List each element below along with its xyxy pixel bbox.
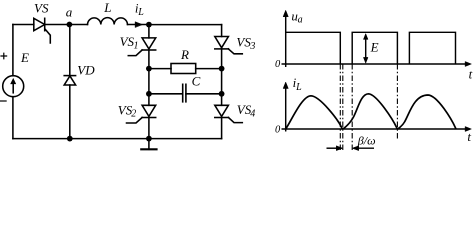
svg-text:E: E xyxy=(370,39,379,54)
svg-text:1: 1 xyxy=(134,40,139,51)
svg-text:t: t xyxy=(469,66,473,81)
svg-text:VS: VS xyxy=(34,0,49,15)
svg-text:VS: VS xyxy=(236,34,251,49)
svg-text:0: 0 xyxy=(275,59,281,70)
svg-text:t: t xyxy=(467,129,471,144)
svg-text:4: 4 xyxy=(250,109,255,120)
svg-text:a: a xyxy=(298,15,303,26)
svg-text:0: 0 xyxy=(275,124,281,135)
svg-text:E: E xyxy=(20,50,29,65)
svg-text:L: L xyxy=(103,0,111,15)
svg-text:R: R xyxy=(180,47,189,62)
svg-text:a: a xyxy=(66,5,73,20)
svg-text:2: 2 xyxy=(131,109,136,120)
svg-text:3: 3 xyxy=(249,41,255,52)
svg-text:VS: VS xyxy=(120,34,135,49)
svg-text:C: C xyxy=(192,74,201,89)
svg-text:L: L xyxy=(295,82,302,93)
svg-text:VD: VD xyxy=(77,63,95,78)
svg-text:β/ω: β/ω xyxy=(357,134,376,148)
svg-text:L: L xyxy=(137,7,144,18)
